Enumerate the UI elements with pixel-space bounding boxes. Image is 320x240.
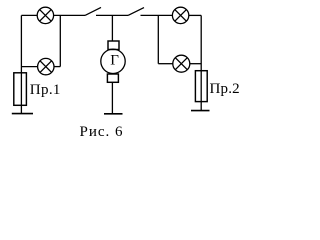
- svg-text:Пр.1: Пр.1: [30, 82, 61, 98]
- svg-text:Пр.2: Пр.2: [210, 81, 240, 97]
- svg-text:Рис. 6: Рис. 6: [80, 124, 124, 140]
- svg-text:Г: Г: [110, 53, 119, 69]
